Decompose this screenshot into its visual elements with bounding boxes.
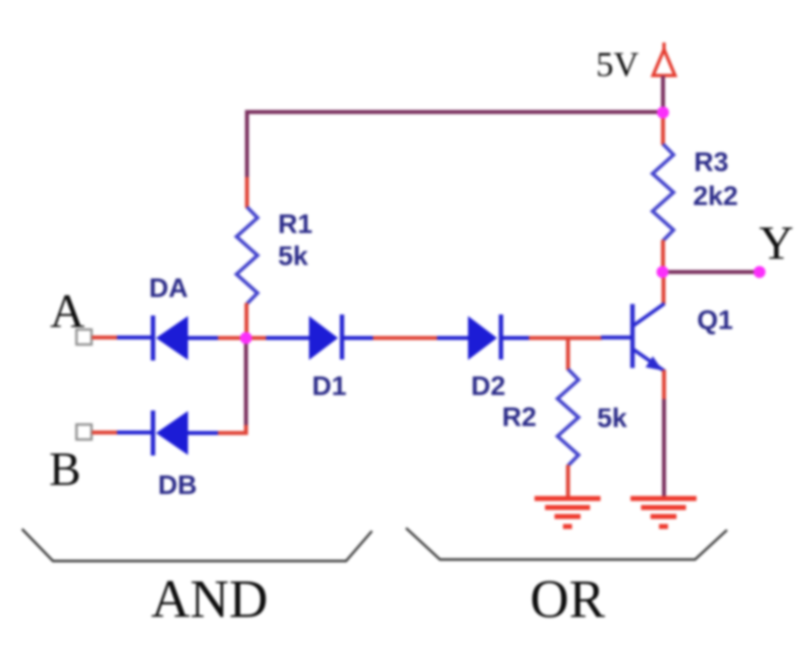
- terminal B: [77, 425, 92, 440]
- svg-text:DA: DA: [149, 273, 188, 303]
- wire node drop red tip: [244, 424, 248, 433]
- svg-text:5V: 5V: [596, 45, 639, 84]
- wire R1 top red: [245, 177, 249, 208]
- OR brace: [406, 528, 727, 560]
- svg-text:5k: 5k: [278, 241, 309, 271]
- resistor R2: [558, 369, 579, 466]
- wire R2 stem red: [566, 338, 570, 370]
- node collector junction: [657, 266, 669, 278]
- wire D1 to D2 red: [373, 336, 438, 340]
- wire collector red: [662, 276, 666, 304]
- svg-text:R2: R2: [502, 402, 537, 432]
- wire R3 bottom red: [661, 240, 665, 268]
- svg-text:D1: D1: [312, 371, 347, 401]
- svg-text:D2: D2: [471, 371, 506, 401]
- wire DA to node: [218, 336, 246, 340]
- svg-text:AND: AND: [151, 569, 268, 629]
- terminal Y dot: [754, 266, 766, 278]
- wire emitter red: [662, 370, 666, 400]
- svg-text:DB: DB: [158, 470, 197, 500]
- wire R2 bottom red: [566, 465, 570, 498]
- diode DA: [117, 316, 219, 361]
- ground R2: [535, 499, 601, 527]
- svg-text:2k2: 2k2: [693, 181, 738, 211]
- wire R1 bottom red: [245, 303, 249, 338]
- transistor Q1: [601, 304, 665, 372]
- diode D2: [437, 315, 530, 361]
- diode D1: [266, 315, 374, 361]
- power 5V symbol: [653, 43, 675, 76]
- node AND junction: [240, 332, 252, 344]
- wire 5V stem maroon: [661, 76, 665, 108]
- wire output maroon: [663, 270, 757, 274]
- svg-text:Y: Y: [759, 217, 794, 270]
- svg-text:R1: R1: [278, 209, 313, 239]
- wire emitter maroon: [662, 399, 666, 497]
- terminal A: [77, 330, 92, 345]
- wire top rail: [247, 112, 663, 178]
- svg-text:B: B: [49, 443, 81, 496]
- resistor R3: [653, 144, 674, 241]
- wire B red: [92, 431, 118, 435]
- resistor R1: [237, 207, 258, 304]
- svg-text:OR: OR: [530, 569, 605, 629]
- AND brace: [22, 529, 372, 561]
- wire node to D1 red: [246, 336, 268, 340]
- svg-text:R3: R3: [694, 147, 729, 177]
- wire DB to corner red: [218, 431, 248, 435]
- wire node drop maroon: [244, 342, 248, 425]
- wire R3 top red: [661, 113, 665, 145]
- wire D2 to base red: [529, 336, 602, 340]
- wire A red: [92, 336, 118, 340]
- svg-text:5k: 5k: [597, 403, 628, 433]
- node VCC junction: [657, 107, 669, 119]
- ground emitter: [631, 499, 697, 527]
- svg-text:Q1: Q1: [697, 305, 733, 335]
- diode DB: [117, 411, 219, 456]
